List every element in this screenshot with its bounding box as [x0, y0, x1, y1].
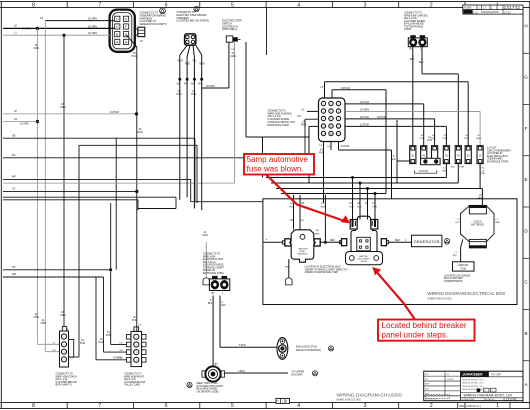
- svg-text:BLK: BLK: [455, 222, 460, 224]
- svg-text:COMPARTMENT): COMPARTMENT): [444, 280, 463, 283]
- wire step cluster lower: [3, 199, 138, 201]
- svg-text:4: 4: [297, 403, 300, 409]
- circuit breaker CB5: [455, 146, 461, 164]
- svg-text:CK: CK: [425, 379, 429, 381]
- J1 mating stub: [135, 29, 138, 35]
- circuit breaker CB6: [465, 146, 471, 164]
- J1 pin C: [115, 24, 120, 29]
- wire 16 PUR long vertical: [136, 47, 138, 331]
- svg-text:2: 2: [430, 2, 433, 8]
- svg-text:6: 6: [165, 403, 168, 409]
- svg-text:PUR: PUR: [431, 138, 436, 140]
- wire up bus 1: [324, 82, 326, 98]
- relay contact block: [357, 237, 371, 251]
- wire relay feed 4: [374, 194, 376, 220]
- title block approvals: [477, 388, 481, 392]
- junction dot LP: [135, 112, 138, 115]
- J1 pin H: [124, 39, 129, 44]
- label 12 PUR bracket: [415, 172, 437, 174]
- svg-text:BY: BY: [199, 84, 203, 86]
- svg-text:𝒬UANCEBER: 𝒬UANCEBER: [461, 373, 483, 377]
- wire breaker7 feed: [479, 111, 481, 145]
- svg-text:LN: LN: [14, 118, 17, 121]
- right connector pin 1: [126, 335, 130, 340]
- svg-text:7: 7: [98, 2, 101, 8]
- insulated stud: [277, 337, 288, 359]
- junction dot: [36, 27, 39, 30]
- svg-text:131742: 131742: [504, 5, 521, 10]
- svg-text:GALLEY CAB): GALLEY CAB): [124, 384, 140, 387]
- svg-text:BATTERIES: BATTERIES: [471, 224, 484, 227]
- svg-text:LP: LP: [14, 110, 17, 113]
- relay top terminal right: [371, 220, 378, 230]
- svg-text:PUR: PUR: [106, 334, 111, 337]
- wire 16 GRN pin right 2: [345, 110, 480, 112]
- battery bar bottom: [469, 239, 486, 248]
- J1 pin B: [115, 32, 120, 37]
- svg-text:BLK: BLK: [410, 58, 415, 61]
- wire RED solenoid to relay: [320, 241, 341, 243]
- svg-text:GRN: GRN: [476, 138, 481, 140]
- wire bus y183: [271, 182, 458, 184]
- wire 16 PUR upper right: [331, 90, 333, 98]
- svg-text:BLK: BLK: [208, 303, 213, 305]
- wire LP from J1 pin G (diagonal): [127, 35, 137, 47]
- svg-text:GRN: GRN: [60, 314, 66, 317]
- wire vertical to box corner: [391, 150, 393, 199]
- coach connector pin 3: [61, 349, 66, 354]
- wire bus drop left: [262, 137, 264, 178]
- svg-text:4: 4: [297, 2, 300, 8]
- svg-text:STUD: STUD: [460, 268, 467, 270]
- svg-text:RED: RED: [395, 240, 400, 242]
- svg-text:REF, (2001A-G ): REF, (2001A-G ): [459, 404, 481, 408]
- svg-text:ORN: ORN: [41, 322, 47, 325]
- circuit breaker CB4: [443, 146, 449, 164]
- svg-text:G: G: [524, 75, 528, 80]
- svg-text:2: 2: [430, 403, 433, 409]
- svg-text:PUR: PUR: [80, 342, 85, 345]
- svg-text:E: E: [524, 177, 527, 182]
- wire 14 GRN from switch: [234, 42, 236, 183]
- wire breaker5 down Y: [457, 164, 459, 183]
- solenoid left terminal: [285, 239, 291, 246]
- wire relay feed 3: [367, 189, 369, 220]
- wire 4 BLK to bus bar: [225, 372, 289, 374]
- svg-text:5: 5: [231, 403, 234, 409]
- wire solenoid feed 2: [299, 195, 301, 230]
- svg-text:DWG NO.: DWG NO.: [487, 399, 496, 401]
- J1 pin E: [124, 16, 129, 21]
- revision stamp block: [463, 5, 523, 14]
- wire G8: [3, 137, 195, 139]
- svg-text:BLK: BLK: [419, 61, 424, 64]
- svg-text:Located behind breaker: Located behind breaker: [382, 321, 467, 330]
- wire 14 GRN lower: [205, 242, 207, 278]
- svg-text:PUR: PUR: [132, 55, 137, 58]
- svg-text:H: H: [524, 23, 527, 28]
- junction dot LN: [36, 120, 39, 123]
- right connector pin 2: [126, 342, 130, 347]
- svg-text:DR: DR: [425, 374, 429, 376]
- solenoid - battery wire balance: [290, 230, 316, 262]
- wire 6 BLK to insulated stud: [220, 346, 277, 348]
- svg-text:ENTRANCE STEP): ENTRANCE STEP): [487, 161, 508, 164]
- svg-text:CB: CB: [177, 84, 181, 86]
- svg-text:PUR: PUR: [481, 173, 486, 175]
- svg-text:5: 5: [231, 2, 234, 8]
- svg-text:16 ORN: 16 ORN: [22, 27, 31, 30]
- svg-text:131742: 131742: [506, 397, 517, 401]
- svg-text:AHEAD OF ENTRANCE STEP: AHEAD OF ENTRANCE STEP: [305, 271, 339, 274]
- svg-text:PUR: PUR: [443, 138, 448, 140]
- step fan wire RED: [187, 45, 190, 57]
- svg-text:16 ORN: 16 ORN: [88, 25, 97, 28]
- connector chassis 15-pin: [319, 98, 346, 142]
- svg-text:BATH VANITY): BATH VANITY): [56, 384, 72, 387]
- wire LN stub: [3, 121, 37, 123]
- svg-text:XA: XA: [12, 188, 16, 191]
- coach batteries octagon: [461, 206, 495, 242]
- svg-text:panel under steps.: panel under steps.: [382, 330, 449, 339]
- wire 14 GRN: [3, 182, 235, 184]
- wire 16 PUR pin right 3: [345, 118, 435, 120]
- wire 6 BLK left oval to breaker 1: [412, 47, 414, 146]
- wire down from pin 14: [330, 142, 332, 151]
- svg-text:PUR: PUR: [289, 207, 294, 209]
- svg-text:RV GRP.: RV GRP.: [492, 374, 502, 377]
- wire breaker4 feed: [445, 126, 447, 145]
- wire y145 branch: [79, 144, 197, 146]
- svg-text:PUR: PUR: [373, 207, 378, 209]
- svg-text:YEL: YEL: [192, 60, 197, 63]
- wire L7 16 PUR vertical: [78, 145, 80, 357]
- svg-text:6: 6: [165, 2, 168, 8]
- step fan wire WHT: [180, 45, 188, 55]
- connector chassis harness (oval pair): [408, 38, 427, 47]
- generator box: [412, 235, 442, 247]
- wire RED relay to generator: [389, 241, 412, 243]
- connector J1 - generator wiring harness: [110, 10, 135, 52]
- svg-text:16 ORN: 16 ORN: [20, 123, 29, 126]
- svg-text:SCALE NONE: SCALE NONE: [462, 398, 475, 401]
- svg-text:BY: BY: [212, 293, 216, 295]
- svg-text:12 PUR: 12 PUR: [419, 170, 428, 173]
- wire 18 ORN to step switch: [202, 87, 229, 89]
- svg-text:1: 1: [496, 403, 499, 409]
- connector step harness: [185, 34, 196, 45]
- feed-thru stud: [205, 366, 220, 381]
- warning symbol: [160, 8, 166, 14]
- svg-text:NO: NO: [120, 350, 124, 352]
- electric step switch: [226, 36, 233, 42]
- svg-text:LA: LA: [301, 219, 304, 222]
- svg-text:COACH: COACH: [473, 221, 482, 224]
- svg-text:3: 3: [364, 2, 367, 8]
- svg-text:4 BLK: 4 BLK: [238, 370, 245, 373]
- svg-text:7: 7: [98, 403, 101, 409]
- wire relay feed 1: [352, 178, 354, 220]
- svg-text:F: F: [125, 25, 127, 29]
- svg-text:BLK: BLK: [451, 167, 456, 169]
- svg-text:16 ORN: 16 ORN: [88, 18, 97, 21]
- svg-text:REL 2001 0-8: REL 2001 0-8: [425, 399, 438, 401]
- coach connector pin 4: [61, 357, 66, 362]
- annotation arrow to relay: [375, 270, 416, 320]
- svg-text:16 PUR: 16 PUR: [377, 116, 386, 119]
- svg-text:PUR: PUR: [191, 93, 196, 96]
- svg-text:RED: RED: [330, 240, 335, 242]
- annotation box - 5amp fuse blown: [244, 154, 314, 175]
- svg-text:J: J: [420, 49, 421, 51]
- battery bar top: [469, 205, 486, 214]
- svg-text:STEP): STEP): [404, 28, 411, 31]
- warning symbol generator: [444, 239, 450, 245]
- connector electrical box (oval pair): [209, 279, 229, 291]
- svg-text:KA: KA: [184, 83, 188, 86]
- svg-text:BUS BAR: BUS BAR: [292, 373, 303, 376]
- svg-text:8: 8: [32, 403, 35, 409]
- step fan wire YEL: [193, 45, 194, 57]
- annotation box - located behind breaker panel: [378, 320, 475, 341]
- svg-text:fuse was blown.: fuse was blown.: [247, 165, 304, 174]
- relay top terminal left: [350, 220, 357, 230]
- svg-text:STEP WELL): STEP WELL): [222, 27, 237, 31]
- wire 12 PUR pin right 4: [345, 125, 446, 127]
- wire breaker2 feed: [423, 104, 425, 146]
- svg-text:BLK: BLK: [391, 158, 396, 161]
- svg-text:16 PUR: 16 PUR: [341, 87, 350, 90]
- wire solenoid feed 1: [293, 195, 295, 230]
- wire hook L2: [307, 110, 319, 112]
- circuit breaker CB3: [432, 146, 438, 164]
- connector right (bottom): [131, 331, 142, 366]
- svg-text:WHT: WHT: [178, 60, 184, 63]
- svg-text:UNLESS NOTED .XX ±: UNLESS NOTED .XX ±: [462, 383, 485, 385]
- svg-text:BALANCE: BALANCE: [298, 253, 308, 256]
- wire bus y177: [266, 177, 446, 179]
- wire 6 BLK right oval to breaker 5: [421, 47, 423, 74]
- svg-text:PUR: PUR: [464, 138, 469, 140]
- wire 14 BRN: [95, 277, 97, 360]
- wire W1: [3, 157, 305, 159]
- svg-text:BH: BH: [191, 84, 195, 86]
- svg-text:1 01: 1 01: [473, 11, 478, 14]
- svg-text:PUR: PUR: [442, 170, 447, 172]
- svg-text:GRN: GRN: [231, 55, 237, 58]
- svg-text:16 PUR: 16 PUR: [360, 116, 369, 119]
- svg-text:WD: WD: [12, 273, 16, 276]
- svg-text:NOØ8: NOØ8: [464, 6, 472, 10]
- svg-text:F: F: [525, 126, 528, 131]
- wire 6 BLK oval right down: [219, 296, 221, 348]
- J1 pin G: [124, 32, 129, 37]
- wire breaker4 down: [445, 164, 447, 178]
- wire XA: [3, 190, 137, 192]
- fuse holder with 5amp fuse: [421, 158, 441, 164]
- annotation arrow to fuse: [266, 175, 346, 222]
- J1 pin F: [124, 24, 129, 29]
- svg-text:(WIRE ASM 151745): (WIRE ASM 151745): [337, 398, 361, 402]
- svg-text:6 BLK: 6 BLK: [239, 344, 246, 347]
- svg-text:RED: RED: [321, 207, 326, 209]
- wire 16 ORN vertical: [36, 28, 38, 344]
- svg-text:RELAY: RELAY: [361, 260, 368, 263]
- svg-text:1-4-99: 1-4-99: [447, 379, 454, 381]
- wire L1 to J1 pin B: [3, 34, 115, 36]
- svg-text:PUR: PUR: [138, 131, 143, 134]
- svg-text:RED: RED: [496, 222, 501, 224]
- section line top center: [266, 8, 268, 55]
- circuit breaker CB7: [477, 146, 483, 164]
- svg-text:BATTERY: BATTERY: [359, 255, 369, 258]
- wire 16 GRN vertical: [63, 35, 65, 326]
- svg-text:UNLESS NOTED .XX ±: UNLESS NOTED .XX ±: [462, 386, 485, 388]
- wire 6 BLK oval left down to feed-thru: [212, 296, 214, 367]
- wire bus y193: [281, 193, 386, 195]
- warning symbol: [194, 6, 199, 11]
- J1 pin A: [115, 39, 120, 44]
- svg-text:RED: RED: [185, 63, 190, 66]
- svg-text:16 PUR: 16 PUR: [341, 145, 350, 148]
- wire step cluster upper: [3, 196, 176, 198]
- svg-text:BLK: BLK: [453, 255, 458, 257]
- svg-text:18 ORN: 18 ORN: [206, 85, 215, 88]
- connector coach (bottom left): [60, 331, 69, 367]
- wire HK: [3, 269, 111, 271]
- wire breaker7 down: [479, 164, 481, 189]
- circuit breaker CB2: [421, 146, 427, 164]
- J1 pin D: [115, 16, 120, 21]
- svg-text:LR: LR: [290, 220, 293, 222]
- svg-text:APP: APP: [425, 383, 430, 386]
- svg-text:WIRING DIAGRAM-ELECTRICAL BOX: WIRING DIAGRAM-ELECTRICAL BOX: [428, 291, 506, 296]
- svg-text:WP: WP: [12, 176, 16, 179]
- step fan wire BRN: [196, 45, 202, 55]
- svg-text:ENTRANCE STEP): ENTRANCE STEP): [268, 124, 290, 127]
- wire down from pin 13: [323, 142, 325, 204]
- relay side terminal right: [381, 239, 386, 246]
- wire branch vertical x116: [115, 138, 117, 270]
- ground bell solenoid: [286, 278, 293, 285]
- svg-text:(WIRE ASM 154125): (WIRE ASM 154125): [428, 296, 452, 300]
- wire L2 BLK battery to ground stud: [461, 240, 463, 248]
- svg-text:RED: RED: [285, 267, 290, 269]
- ground bell left: [203, 278, 210, 285]
- wire vertical to pin3: [44, 21, 46, 352]
- wire WP: [3, 178, 191, 180]
- svg-text:PUR: PUR: [319, 152, 324, 155]
- wire LP horizontal: [3, 113, 137, 115]
- coach connector pin 1: [61, 334, 66, 339]
- right connector pin 4: [126, 358, 130, 363]
- wire breaker3 feed: [434, 119, 436, 146]
- svg-text:RED: RED: [315, 234, 320, 236]
- svg-text:ON DRIVER'S SIDE): ON DRIVER'S SIDE): [197, 390, 220, 393]
- wire L5 RED vertical: [324, 195, 326, 242]
- svg-text:BRN: BRN: [200, 63, 205, 66]
- right connector pin 3: [126, 350, 130, 355]
- wire 6 BLK to breaker 1 side: [396, 120, 398, 183]
- svg-text:(REAR CONVERTER): (REAR CONVERTER): [296, 349, 321, 352]
- svg-text:UNLESS NOTED .XX ±: UNLESS NOTED .XX ±: [462, 389, 485, 391]
- svg-text:16 PUR: 16 PUR: [110, 111, 119, 114]
- wire bus y188: [276, 188, 482, 190]
- svg-text:ENTRANCE STEP): ENTRANCE STEP): [203, 272, 224, 275]
- wire solenoid ground: [288, 259, 290, 278]
- wire hook lower: [309, 125, 319, 127]
- svg-text:16 GRN: 16 GRN: [360, 108, 369, 111]
- svg-text:GROUND: GROUND: [458, 265, 469, 267]
- svg-text:(LOCATED ON CHASSIS: (LOCATED ON CHASSIS: [444, 275, 471, 278]
- ground stud box: [453, 262, 475, 271]
- stamp small box: [276, 398, 290, 403]
- bottom left dashed cell: [425, 395, 450, 399]
- svg-text:PUR: PUR: [349, 207, 354, 209]
- svg-text:GRN: GRN: [203, 234, 209, 237]
- svg-text:8: 8: [32, 2, 35, 8]
- svg-text:RED: RED: [478, 198, 483, 200]
- svg-text:LP: LP: [140, 40, 143, 43]
- svg-text:ORN: ORN: [34, 47, 40, 50]
- svg-text:J: J: [222, 293, 223, 295]
- wire WD: [3, 276, 104, 278]
- svg-text:LR: LR: [301, 203, 304, 205]
- svg-text:BLK: BLK: [222, 305, 227, 307]
- solenoid right terminal: [314, 239, 320, 246]
- svg-text:16 ORN: 16 ORN: [88, 32, 97, 35]
- svg-text:HK: HK: [12, 266, 16, 269]
- wire relay feed 2: [359, 183, 361, 220]
- svg-text:X: X: [277, 399, 279, 403]
- junction dot: [62, 34, 65, 37]
- title block: [424, 371, 523, 401]
- relay side terminal left: [342, 239, 347, 246]
- junction dot XA: [135, 190, 138, 193]
- relay - battery disconnect: [346, 252, 383, 265]
- svg-text:12 PUR: 12 PUR: [360, 123, 369, 126]
- svg-text:PUR: PUR: [99, 341, 104, 344]
- svg-text:(LOCATED BELOW STEPS): (LOCATED BELOW STEPS): [177, 19, 210, 23]
- circuit breaker CB1: [410, 146, 416, 164]
- svg-text:RAIL AT BATTERY: RAIL AT BATTERY: [444, 277, 464, 280]
- wire down from pin 15 to long vertical: [338, 142, 340, 151]
- svg-text:ORN: ORN: [34, 316, 40, 319]
- wire 16 PUR pin right 1: [345, 103, 424, 105]
- svg-text:PUR: PUR: [460, 167, 465, 169]
- wire into solenoid left: [264, 241, 283, 243]
- wire L8 16 ORN to J1 pin C: [3, 27, 115, 29]
- svg-text:NO: NO: [120, 357, 124, 359]
- feed-thru stud note: [187, 382, 192, 387]
- svg-text:PUR: PUR: [177, 93, 182, 96]
- svg-text:BATTERY: BATTERY: [299, 248, 309, 251]
- wire 16 PUR vertical long: [385, 90, 387, 194]
- wire L2 RED battery top: [481, 189, 483, 206]
- svg-text:UNLESS NOTED .XX ±: UNLESS NOTED .XX ±: [462, 380, 485, 382]
- coach connector pin 2: [61, 342, 66, 347]
- svg-text:PUR: PUR: [420, 138, 425, 140]
- svg-text:GENERATOR COMPT): GENERATOR COMPT): [140, 22, 167, 26]
- svg-text:LN: LN: [40, 17, 43, 20]
- electrical box outline: [263, 199, 517, 305]
- svg-text:5amp automotive: 5amp automotive: [247, 155, 309, 164]
- svg-text:GRN: GRN: [60, 106, 66, 109]
- svg-text:PUR: PUR: [357, 207, 362, 209]
- svg-text:PUR: PUR: [132, 319, 137, 322]
- svg-text:B: B: [524, 331, 527, 336]
- wire breaker6 feed: [467, 82, 469, 146]
